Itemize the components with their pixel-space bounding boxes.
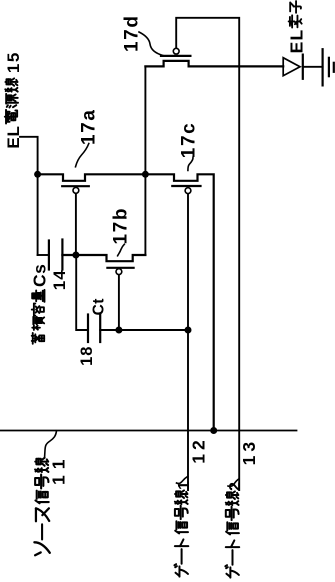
svg-text:EL: EL — [287, 29, 307, 54]
svg-text:13: 13 — [239, 438, 259, 465]
svg-text:11: 11 — [49, 453, 69, 486]
svg-text:15: 15 — [4, 51, 23, 73]
svg-text:17c: 17c — [179, 122, 200, 159]
svg-text:14: 14 — [50, 269, 69, 290]
svg-text:Cs: Cs — [30, 264, 50, 287]
svg-text:17a: 17a — [78, 108, 99, 145]
svg-text:17b: 17b — [111, 207, 132, 245]
svg-text:EL: EL — [4, 125, 23, 148]
svg-text:18: 18 — [78, 346, 96, 366]
svg-text:12: 12 — [188, 436, 208, 463]
svg-text:17d: 17d — [122, 14, 143, 52]
svg-text:2: 2 — [227, 482, 244, 491]
svg-text:Ct: Ct — [90, 298, 107, 315]
svg-text:1: 1 — [176, 481, 193, 490]
